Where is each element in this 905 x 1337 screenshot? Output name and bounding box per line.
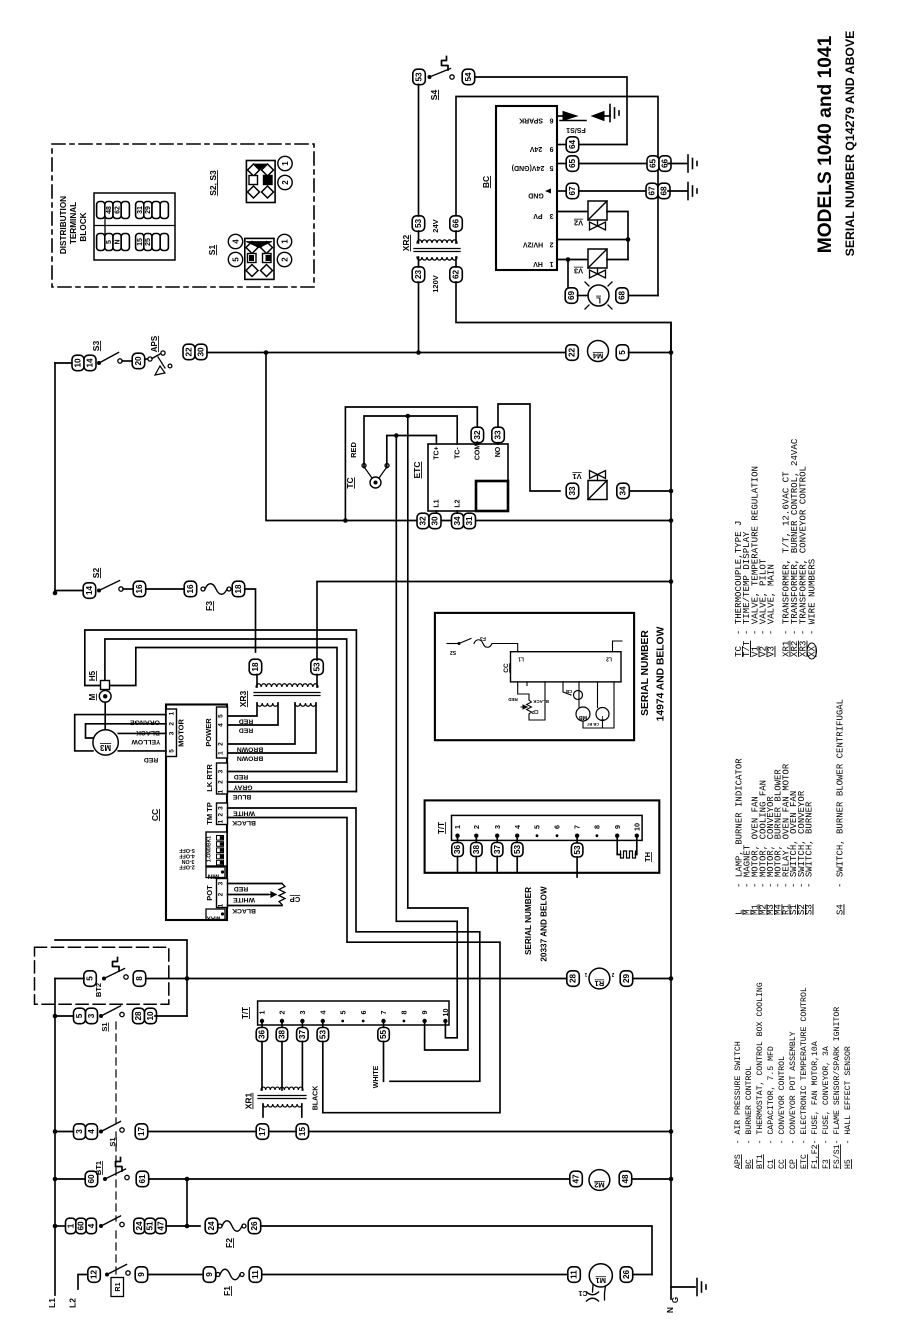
svg-text:30: 30 — [431, 516, 440, 526]
S3 row wire left — [55, 362, 74, 364]
svg-text:N: N — [665, 1307, 675, 1313]
svg-text:37: 37 — [298, 1030, 307, 1040]
svg-text:RED: RED — [144, 756, 158, 763]
ETC relay notch — [476, 481, 508, 511]
terminal 68 at ignitor — [616, 288, 629, 304]
svg-text:10: 10 — [146, 1011, 155, 1021]
svg-text:BT1 - THERMOSTAT, CONTROL BOX: BT1 - THERMOSTAT, CONTROL BOX COOLING — [756, 982, 765, 1169]
svg-text:51: 51 — [146, 1221, 155, 1231]
terminal 34 at V1 — [617, 483, 630, 499]
svg-text:55: 55 — [379, 1030, 388, 1040]
svg-text:53: 53 — [313, 662, 322, 672]
svg-text:CB BT: CB BT — [586, 722, 599, 727]
svg-text:3: 3 — [169, 731, 176, 735]
S1 conveyor interlock row y=1226 — [53, 1224, 58, 1229]
terminal pair 32 30 — [417, 513, 429, 529]
svg-text:L1: L1 — [47, 1298, 57, 1308]
svg-text:M4: M4 — [592, 352, 603, 361]
svg-text:3: 3 — [493, 825, 502, 829]
TT1 terminal strip — [258, 1001, 449, 1025]
wire RED loop to H5 right — [110, 648, 337, 772]
svg-text:36: 36 — [258, 1030, 267, 1040]
svg-text:XX - WIRE NUMBERS: XX - WIRE NUMBERS — [807, 558, 818, 657]
svg-text:MOTOR: MOTOR — [177, 719, 186, 747]
ETC NO wire to V1 — [498, 404, 560, 491]
XR1 primary stubs — [262, 1104, 264, 1117]
terminal 16 at S2 — [133, 581, 146, 597]
svg-text:120V: 120V — [431, 275, 440, 293]
terminal 29 at R1 — [620, 971, 633, 987]
svg-text:9: 9 — [205, 1272, 214, 1277]
svg-text:22: 22 — [568, 348, 577, 358]
svg-text:BLOCK: BLOCK — [79, 212, 88, 241]
svg-text:1: 1 — [453, 825, 462, 829]
svg-text:R1: R1 — [113, 1282, 122, 1291]
svg-text:5: 5 — [549, 164, 553, 171]
circled pin 2 of S1 — [277, 252, 291, 266]
svg-text:1-ON0/BK1: 1-ON0/BK1 — [207, 836, 213, 862]
svg-text:4: 4 — [318, 1011, 327, 1015]
svg-text:APS: APS — [150, 335, 159, 352]
TT1 terminal 53 under pin 4 BLACK wire — [322, 1023, 324, 1027]
connector S2 S3 symbol — [246, 161, 275, 203]
connector S1 symbol — [245, 238, 274, 279]
TM TP connector on CC — [217, 803, 228, 825]
APS diaphragm symbol — [158, 357, 165, 368]
svg-text:10: 10 — [632, 823, 641, 831]
svg-text:1: 1 — [280, 239, 289, 244]
burner control BC box — [496, 106, 557, 270]
svg-text:MB: MB — [579, 714, 588, 720]
ETC L2 pin to bus — [456, 511, 458, 514]
terminal 12 at R1 contact — [88, 1267, 101, 1283]
terminal 62 XR2 — [450, 267, 463, 283]
svg-text:L: L — [596, 296, 601, 305]
svg-text:1: 1 — [218, 903, 225, 907]
svg-text:S4: S4 — [429, 90, 439, 101]
svg-text:8: 8 — [593, 825, 602, 829]
svg-text:XR3: XR3 — [238, 690, 248, 707]
circled pin 1 of S2 S3 — [278, 156, 292, 170]
svg-text:2: 2 — [278, 1011, 287, 1015]
svg-text:HV/2V: HV/2V — [523, 241, 544, 248]
svg-text:8: 8 — [400, 1011, 409, 1015]
ground at 67/68 — [687, 183, 689, 200]
wire RED M3 pin5 — [118, 750, 166, 752]
terminal pair 5 3 at S1 bypass — [74, 1008, 86, 1024]
TT2 terminal strip — [452, 815, 643, 840]
motor M2 cooling fan — [589, 1170, 610, 1191]
svg-text:33: 33 — [494, 430, 503, 440]
svg-text:C1 - CAPACITOR, 7.5 MFD: C1 - CAPACITOR, 7.5 MFD — [767, 1046, 776, 1169]
svg-text:C1: C1 — [578, 1289, 587, 1296]
terminal 22 at M4 — [566, 345, 579, 361]
S1 bypass row y=1016 — [54, 979, 56, 1296]
svg-text:5-OFF: 5-OFF — [179, 847, 195, 853]
svg-text:3: 3 — [75, 1129, 84, 1134]
svg-text:M3: M3 — [99, 743, 111, 752]
ETC box — [428, 444, 508, 511]
terminal 48 at M2 — [619, 1171, 632, 1187]
svg-text:14: 14 — [86, 358, 95, 368]
svg-text:BT2: BT2 — [94, 983, 103, 997]
terminal 15 at XR1 — [296, 1124, 309, 1140]
svg-text:S2, S3: S2, S3 — [208, 170, 218, 196]
terminal 69 — [565, 288, 578, 304]
svg-text:R1: R1 — [595, 979, 605, 988]
svg-text:3: 3 — [549, 212, 553, 219]
mini return wire in 14974 circuit — [583, 686, 614, 729]
valve V3 main — [588, 249, 607, 268]
terminal 16 at F3 — [184, 581, 197, 597]
S1 gang dashed link lower — [115, 1132, 117, 1221]
svg-text:3: 3 — [298, 1011, 307, 1015]
svg-text:5: 5 — [169, 749, 176, 753]
svg-text:YELLOW: YELLOW — [131, 738, 161, 745]
svg-text:47: 47 — [157, 1221, 166, 1231]
svg-text:BC - BURNER CONTROL: BC - BURNER CONTROL — [745, 1066, 754, 1169]
mini switch S2 in 14974 circuit — [458, 642, 461, 645]
ETC L1 pin to bus — [435, 511, 437, 514]
svg-text:FS/S1- FLAME SENSOR/SPARK IGNI: FS/S1- FLAME SENSOR/SPARK IGNITOR — [832, 1007, 842, 1169]
wire F2 to M1 right side — [261, 1226, 652, 1275]
terminal 14 at S2 — [83, 583, 96, 599]
terminal pair 10 14 — [72, 355, 84, 371]
svg-text:16: 16 — [186, 584, 195, 594]
svg-text:6: 6 — [549, 117, 553, 124]
XR3 primary winding — [256, 675, 258, 688]
svg-text:F1: F1 — [222, 1286, 232, 1296]
svg-text:66: 66 — [452, 219, 461, 229]
svg-text:2: 2 — [611, 971, 614, 977]
svg-text:5: 5 — [618, 350, 627, 355]
svg-text:G: G — [671, 1297, 680, 1303]
svg-text:1: 1 — [549, 260, 553, 267]
svg-text:62: 62 — [452, 270, 461, 280]
svg-text:5: 5 — [231, 257, 240, 262]
svg-text:31: 31 — [465, 516, 474, 526]
LK RTR wires to loops — [228, 771, 338, 773]
svg-text:17: 17 — [137, 1127, 146, 1137]
svg-text:GRAY: GRAY — [233, 784, 252, 791]
terminal pair 67 68 — [646, 183, 658, 199]
svg-text:14974 AND BELOW: 14974 AND BELOW — [656, 626, 667, 721]
XR3 secondary taps to POWER connector — [228, 703, 258, 716]
svg-text:2: 2 — [549, 241, 553, 248]
wire H5 to M3 — [104, 702, 106, 730]
MIN box on CC — [206, 867, 225, 878]
serial number 20337 and below box — [425, 800, 660, 872]
motor M1 oven fan — [589, 1264, 612, 1287]
svg-text:TC: TC — [345, 477, 355, 488]
switch S1 oven fan — [99, 1130, 103, 1134]
XR2 core — [414, 248, 460, 250]
switch S3 — [97, 361, 101, 365]
svg-text:26: 26 — [622, 1270, 631, 1280]
XR1 secondary taps from TT1 pins 1-3 — [261, 1042, 263, 1091]
terminal 5 at M4 — [616, 345, 629, 361]
S2 row junction on L1 bus — [53, 591, 58, 596]
svg-text:2: 2 — [280, 257, 289, 262]
svg-text:BROWN: BROWN — [237, 755, 264, 762]
svg-text:T/T: T/T — [241, 1007, 250, 1019]
MOTOR connector on CC — [166, 709, 177, 757]
svg-text:53: 53 — [513, 845, 522, 855]
svg-text:62: 62 — [114, 206, 121, 214]
terminal 67 — [566, 183, 579, 199]
svg-text:28: 28 — [134, 1011, 143, 1021]
terminal 26 at F2 — [248, 1218, 261, 1234]
svg-text:BLUE: BLUE — [232, 793, 251, 800]
svg-text:CP: CP — [531, 708, 539, 714]
fuse F2 fan motor 10A — [218, 1224, 222, 1228]
terminal 64 — [566, 137, 579, 153]
conveyor control CC box — [166, 705, 227, 921]
BT2 row wire to R1 coil — [146, 978, 567, 980]
terminal 32 at COM — [471, 427, 484, 443]
svg-text:5: 5 — [218, 714, 225, 718]
wire YELLOW M3 pin3 — [118, 732, 166, 734]
wire XR2-23 down to L1 bus — [418, 282, 420, 353]
circled pin 1 of S1 — [277, 234, 291, 248]
wire XR2-66 to ignitor 68 feed — [456, 97, 658, 296]
svg-text:H5: H5 — [88, 670, 97, 681]
terminal 54 at S4 — [462, 69, 475, 85]
svg-text:L1: L1 — [434, 499, 441, 507]
TT2 terminals 36 38 37 53 under pins 1-4 — [457, 838, 459, 842]
M3 wiring loop outer — [75, 715, 166, 751]
svg-text:54: 54 — [464, 72, 473, 82]
svg-text:1: 1 — [218, 789, 225, 793]
svg-text:24V(GND): 24V(GND) — [512, 164, 545, 171]
terminal 61 at BT1 — [136, 1171, 149, 1187]
svg-text:TC+: TC+ — [434, 446, 441, 459]
terminal block inner box — [94, 193, 175, 260]
R1 contact label box — [111, 1278, 124, 1297]
svg-text:2: 2 — [169, 722, 176, 726]
svg-text:2: 2 — [218, 813, 225, 817]
svg-text:BC: BC — [481, 176, 491, 188]
circled pin 4 of S1 — [228, 234, 242, 248]
svg-text:S3: S3 — [91, 341, 101, 352]
svg-text:60: 60 — [77, 1221, 86, 1231]
S1 oven fan row y=1131 — [53, 1129, 58, 1134]
svg-text:34: 34 — [453, 516, 462, 526]
wire 54 to BC 24V via 64 — [475, 77, 627, 145]
svg-text:N: N — [114, 239, 121, 244]
svg-text:SERIAL NUMBER: SERIAL NUMBER — [640, 630, 651, 716]
svg-text:L2: L2 — [606, 656, 612, 662]
XR2 primary winding 120V — [417, 257, 457, 260]
svg-text:32: 32 — [419, 516, 428, 526]
POWER connector on CC — [217, 707, 228, 758]
svg-text:5: 5 — [533, 825, 542, 829]
svg-text:XR2: XR2 — [401, 234, 411, 251]
mini fuse F3 in 14974 circuit — [474, 640, 492, 648]
svg-text:9: 9 — [549, 145, 553, 152]
air pressure switch APS — [145, 358, 148, 360]
svg-text:V3 - VALVE, MAIN: V3 - VALVE, MAIN — [766, 564, 777, 657]
svg-text:23: 23 — [414, 270, 423, 280]
svg-text:BT1: BT1 — [94, 1161, 103, 1175]
svg-text:V2: V2 — [574, 219, 583, 228]
svg-text:L2: L2 — [68, 1298, 78, 1308]
svg-text:S1: S1 — [207, 245, 217, 256]
svg-text:68: 68 — [618, 291, 627, 301]
mini CC box in 14974 circuit — [511, 652, 622, 682]
terminal cluster 24 51 47 — [134, 1218, 145, 1234]
svg-text:7: 7 — [379, 1011, 388, 1015]
fuse F1 fan motor 10A — [216, 1273, 220, 1277]
svg-text:BLACK: BLACK — [532, 699, 548, 704]
svg-text:9: 9 — [613, 825, 622, 829]
svg-text:24: 24 — [135, 1221, 144, 1231]
svg-text:22: 22 — [185, 347, 194, 357]
terminal pair 22 30 — [183, 344, 195, 360]
wire A TC+ to TT1 pin 10 — [396, 436, 457, 1038]
terminal pair 28 10 — [133, 1008, 145, 1024]
svg-text:F2: F2 — [224, 1238, 234, 1248]
L1 feed path over dashed box — [55, 940, 187, 1016]
svg-text:S4 - SWITCH, BURNER BLOWER C: S4 - SWITCH, BURNER BLOWER CENTRIFUGAL — [836, 699, 846, 915]
svg-text:8: 8 — [135, 976, 144, 981]
svg-text:BLACK: BLACK — [313, 1086, 320, 1111]
dashed thermostat box around BT2 — [35, 947, 169, 1004]
TT2 terminal 53 under pin 7 — [576, 838, 578, 843]
svg-text:4: 4 — [218, 723, 225, 727]
svg-text:37: 37 — [493, 845, 502, 855]
wire V2 to HV/2V junction — [607, 212, 628, 260]
L1 vertical bus from S3 row — [54, 363, 56, 593]
svg-text:S3 - SWITCH, BURNER: S3 - SWITCH, BURNER — [805, 801, 815, 915]
svg-text:SPARK: SPARK — [519, 117, 543, 124]
svg-text:11: 11 — [251, 1270, 260, 1279]
wire BC 24V pin to 64 — [557, 144, 566, 146]
svg-text:2-OFF: 2-OFF — [179, 864, 195, 870]
svg-text:1: 1 — [281, 161, 290, 166]
svg-text:4-OFF: 4-OFF — [179, 853, 195, 859]
svg-text:L1: L1 — [518, 656, 524, 662]
svg-text:ETC: ETC — [412, 462, 422, 479]
svg-text:TC-: TC- — [455, 447, 462, 459]
svg-text:F3: F3 — [480, 635, 486, 641]
svg-text:F3 - FUSE, CONVEYOR, 3A: F3 - FUSE, CONVEYOR, 3A — [822, 1046, 831, 1169]
switch S1 second pole — [99, 1224, 103, 1228]
ground at 65/66 — [687, 155, 689, 172]
terminal 33 at NO — [492, 427, 505, 443]
svg-text:10: 10 — [441, 1009, 450, 1017]
svg-text:CB: CB — [565, 689, 572, 694]
svg-text:20: 20 — [134, 356, 143, 366]
terminal 18 at F3 — [232, 581, 245, 597]
svg-text:1: 1 — [218, 819, 225, 823]
switch S1 bypass — [99, 1014, 103, 1018]
svg-text:18: 18 — [234, 584, 243, 594]
terminal 9 at F1 — [203, 1267, 216, 1283]
terminal cluster 31 29 — [136, 202, 144, 219]
svg-text:ETC - ELECTRONIC TEMPERATURE: ETC - ELECTRONIC TEMPERATURE CONTROL — [800, 987, 809, 1169]
wire B TC- to TT1 pin 9 — [408, 416, 468, 1050]
relay contact R1 — [105, 1273, 109, 1277]
terminal 20 — [132, 353, 145, 369]
svg-text:4: 4 — [87, 1223, 96, 1228]
svg-text:TH: TH — [643, 852, 652, 862]
svg-text:V1: V1 — [572, 472, 581, 481]
wire BC HV/2V pin — [557, 239, 628, 241]
svg-text:33: 33 — [568, 486, 577, 496]
terminal 18 at XR3 — [249, 659, 262, 675]
svg-text:17: 17 — [258, 1127, 267, 1137]
svg-text:1: 1 — [66, 1223, 75, 1228]
mini CB breaker in 14974 circuit — [563, 686, 571, 696]
circled pin 5 of S1 — [228, 252, 242, 266]
svg-text:CP - CONVEYOR POT ASSEMBLY: CP - CONVEYOR POT ASSEMBLY — [789, 1031, 798, 1169]
svg-text:53: 53 — [573, 845, 582, 855]
svg-text:CP: CP — [290, 895, 300, 904]
svg-text:53: 53 — [414, 219, 423, 229]
svg-text:TM TP: TM TP — [205, 802, 214, 825]
svg-text:3: 3 — [218, 806, 225, 810]
wire BC 24V(GND) to 65 66 and ground — [557, 163, 566, 165]
link wire between 48/62 and 5/N clusters — [104, 219, 106, 234]
svg-text:24: 24 — [207, 1221, 216, 1231]
wire XR2-62 to neutral bus — [456, 282, 671, 353]
relay R1 oven fan — [589, 968, 610, 989]
svg-text:S2: S2 — [91, 568, 101, 579]
terminal 60 at BT1 — [85, 1171, 98, 1187]
conveyor pot CP — [228, 883, 283, 885]
svg-text:COM: COM — [475, 444, 482, 461]
svg-text:M1: M1 — [596, 1276, 606, 1285]
svg-text:GND: GND — [528, 192, 544, 199]
svg-text:3: 3 — [218, 769, 225, 773]
switch BT1 thermostat — [103, 1177, 107, 1181]
svg-text:26: 26 — [250, 1221, 259, 1231]
terminal 66 XR2 — [450, 216, 463, 232]
svg-text:5: 5 — [106, 240, 113, 244]
svg-text:15: 15 — [298, 1127, 307, 1137]
terminal cluster 15 25 — [136, 234, 144, 251]
svg-text:V3: V3 — [574, 267, 583, 276]
svg-text:WHITE: WHITE — [233, 810, 255, 817]
terminal 33 at V1 — [566, 483, 579, 499]
svg-text:2: 2 — [218, 742, 225, 746]
switch BT2 thermostat — [102, 977, 106, 981]
svg-text:38: 38 — [278, 1030, 287, 1040]
mini motor T in 14974 circuit — [596, 708, 609, 721]
S1 gang dashed link — [115, 1022, 117, 1124]
wire 18 down to XR3 — [245, 589, 256, 652]
terminal 24 at F2 — [205, 1218, 218, 1234]
svg-text:CC: CC — [150, 809, 160, 821]
svg-text:BROWN: BROWN — [237, 746, 264, 753]
svg-text:PV: PV — [533, 212, 543, 219]
LK RTR connector on CC — [217, 763, 228, 794]
terminal 47 at M2 — [570, 1171, 583, 1187]
svg-text:1: 1 — [218, 751, 225, 755]
svg-text:WHITE: WHITE — [373, 1065, 380, 1088]
mini wires L1 L2 in 14974 circuit — [492, 644, 518, 652]
gang link to R1 box — [115, 1231, 117, 1277]
svg-text:16: 16 — [135, 584, 144, 594]
svg-text:S2: S2 — [450, 649, 456, 655]
svg-text:10: 10 — [74, 358, 83, 368]
svg-text:47: 47 — [572, 1174, 581, 1184]
terminal 53 at XR3 — [311, 659, 324, 675]
wire BC GND to 67 68 and ground — [557, 190, 566, 192]
terminal 17 at S1 — [135, 1124, 148, 1140]
svg-text:24V: 24V — [431, 219, 440, 232]
